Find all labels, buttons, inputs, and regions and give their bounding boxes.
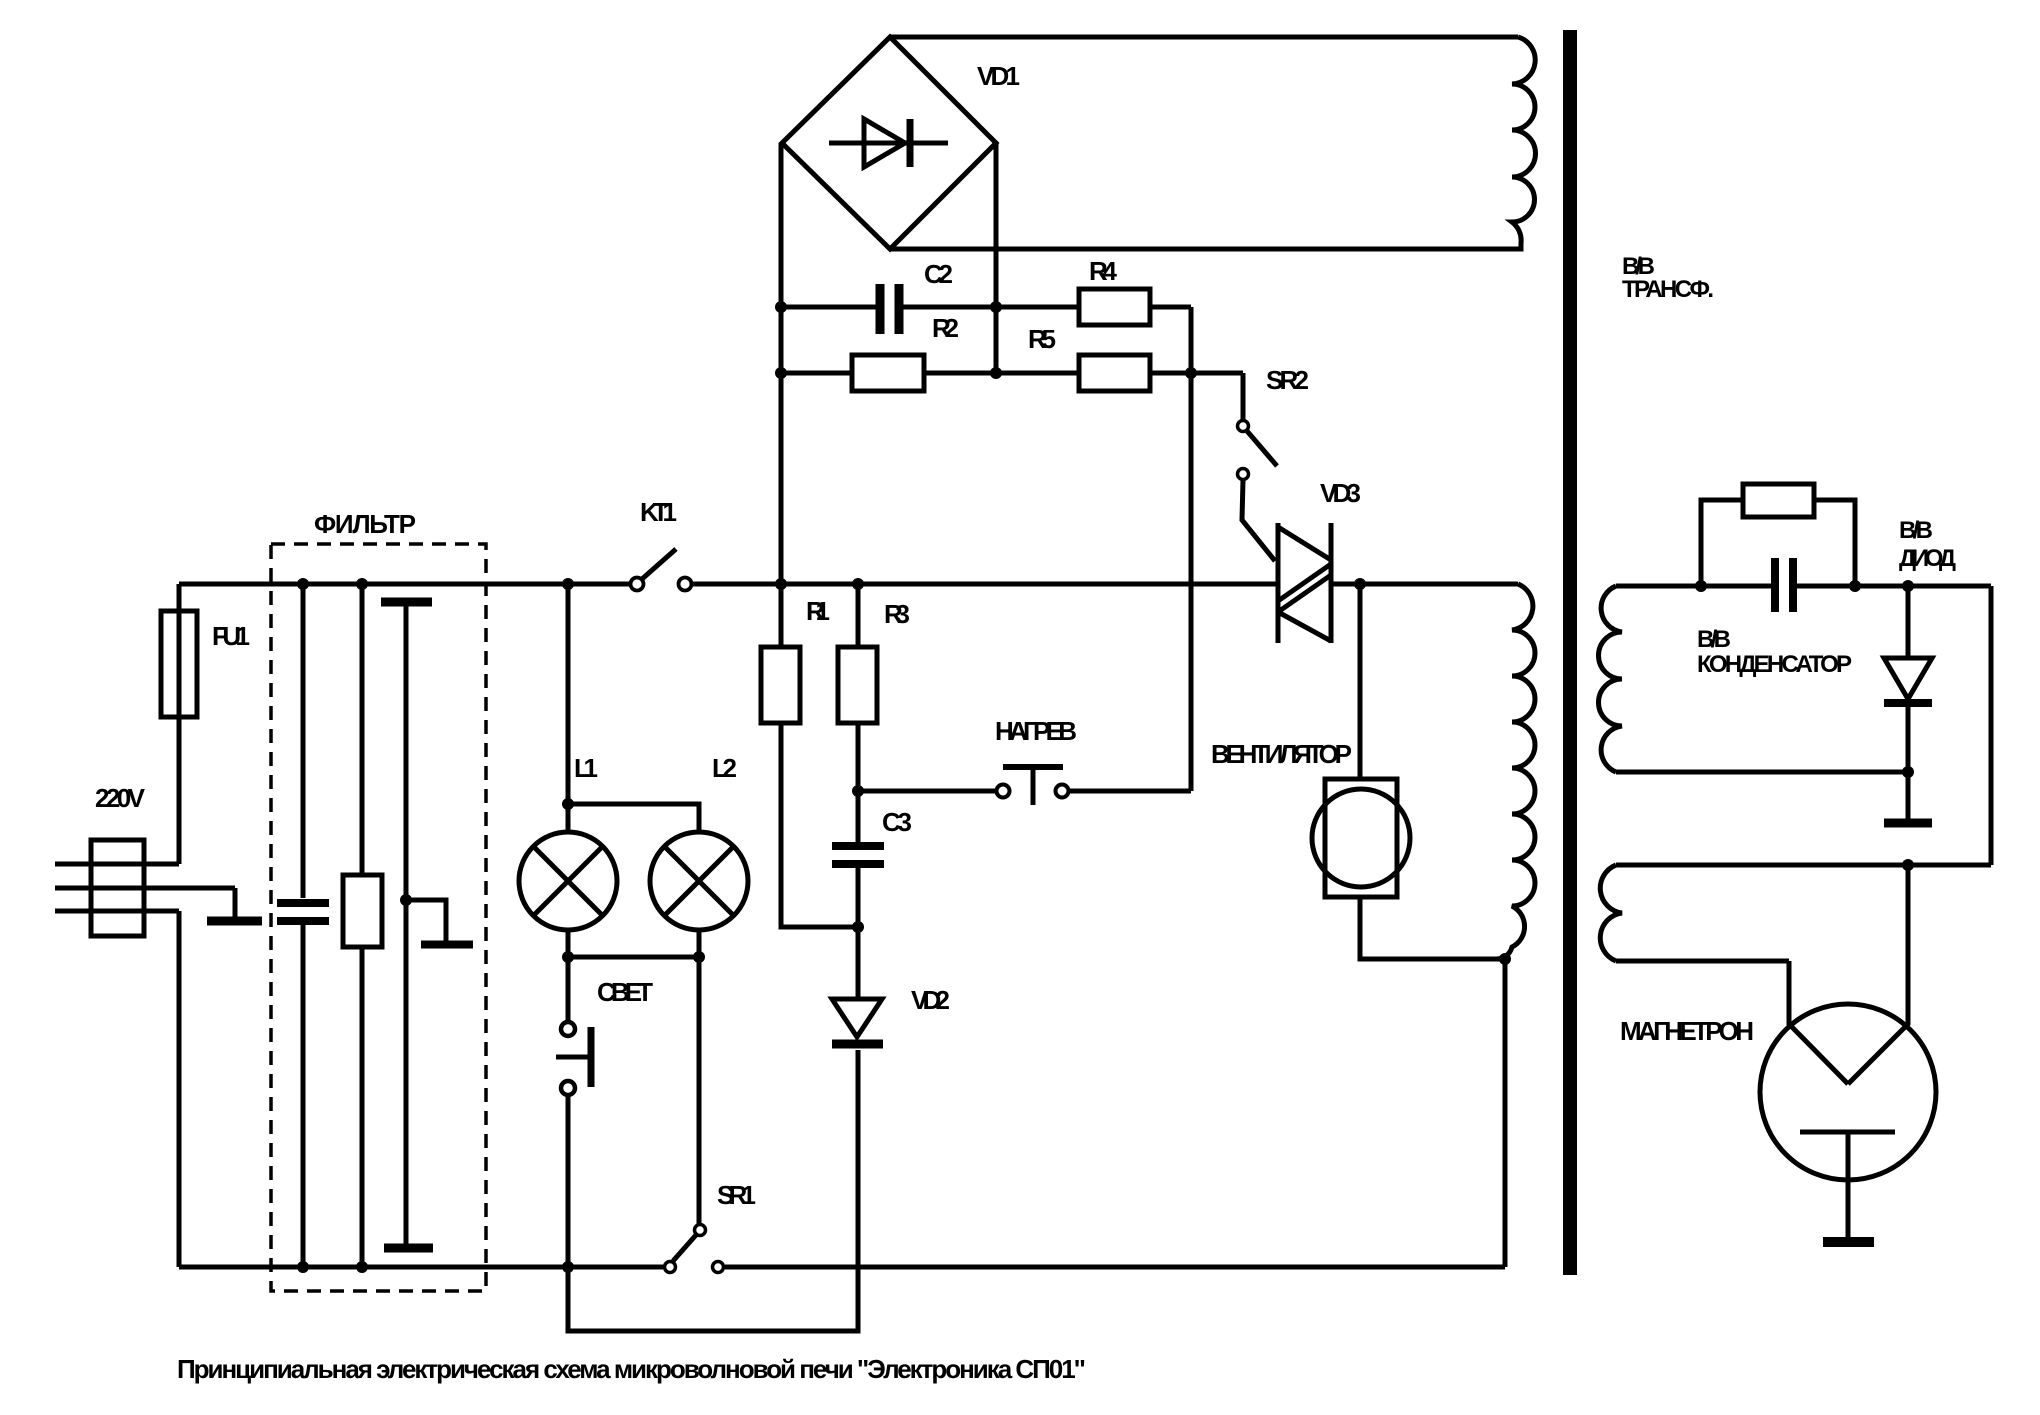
svg-text:R2: R2 bbox=[932, 313, 959, 343]
label В/В ДИОД bbox=[1899, 517, 1956, 572]
bottom rail left of SR1 bbox=[179, 1265, 663, 1270]
filter resistor bbox=[343, 584, 382, 1267]
svg-text:KT1: KT1 bbox=[640, 497, 677, 527]
bleeder resistor over HV capacitor bbox=[1701, 484, 1855, 586]
svg-text:R3: R3 bbox=[884, 599, 910, 629]
svg-text:Принципиальная электрическая с: Принципиальная электрическая схема микро… bbox=[177, 1354, 1086, 1384]
node R1 top on main wire bbox=[775, 578, 787, 590]
node filter resistor bottom on rail bbox=[356, 1261, 368, 1273]
transformer core bbox=[1563, 30, 1577, 1275]
svg-text:C3: C3 bbox=[882, 807, 912, 837]
wire L2 down to SR1 bbox=[697, 957, 702, 1224]
wire light button to bottom rail bbox=[566, 1096, 571, 1267]
HV bottom wire bbox=[1616, 770, 1908, 775]
svg-text:ДИОД: ДИОД bbox=[1899, 545, 1956, 572]
ground stub right of filter line bbox=[406, 900, 473, 945]
node primary bottom junction bbox=[1499, 953, 1511, 965]
lower primary winding of HV transformer bbox=[1496, 584, 1535, 959]
node R4/R5 junction bbox=[1185, 367, 1197, 379]
filter dashed box bbox=[271, 544, 486, 1291]
wire L1 bottom bbox=[566, 930, 571, 957]
node C1 bottom on rail bbox=[297, 1261, 309, 1273]
node HV diode bottom bbox=[1902, 766, 1914, 778]
wire L2 bottom bbox=[697, 930, 702, 957]
svg-text:L1: L1 bbox=[574, 753, 598, 783]
main wire right segment bbox=[691, 582, 1278, 587]
node bleeder right bbox=[1849, 580, 1861, 592]
resistor R4 bbox=[1079, 289, 1191, 373]
node lamps top split bbox=[562, 798, 574, 810]
wire winding bottom to bridge bottom vertex bbox=[890, 247, 1521, 252]
switch SR1 bbox=[665, 1225, 724, 1273]
node bleeder left bbox=[1695, 580, 1707, 592]
wire main down to lamps bbox=[566, 584, 571, 804]
node R1/C3 bottom junction bbox=[852, 921, 864, 933]
ground under magnetron bbox=[1823, 1237, 1874, 1247]
svg-text:ФИЛЬТР: ФИЛЬТР bbox=[314, 509, 416, 539]
upper primary winding of HV transformer bbox=[1512, 37, 1536, 249]
svg-text:SR1: SR1 bbox=[717, 1180, 756, 1210]
node C2 right bbox=[990, 301, 1002, 313]
wire bridge right vertex down to R2 line bbox=[994, 143, 999, 373]
ground bar at filter bottom bbox=[384, 1244, 433, 1253]
diode bridge VD1 bbox=[782, 37, 996, 249]
svg-text:СВЕТ: СВЕТ bbox=[597, 977, 653, 1007]
node on bottom rail under light button bbox=[562, 1261, 574, 1273]
node R2 left bbox=[775, 367, 787, 379]
wire winding bottom to junction bbox=[1460, 957, 1496, 962]
wire bridge top to upper primary winding bbox=[890, 35, 1518, 40]
svg-text:R1: R1 bbox=[806, 596, 830, 626]
svg-text:В/В: В/В bbox=[1697, 626, 1731, 653]
wire fan bottom to primary bottom bbox=[1360, 897, 1505, 959]
capacitor C2 bbox=[781, 284, 1079, 334]
HV top wire left part bbox=[1616, 584, 1771, 589]
fan motor ВЕНТИЛЯТОР bbox=[1312, 779, 1410, 897]
svg-text:FU1: FU1 bbox=[212, 621, 250, 651]
node triac fan junction bbox=[1354, 578, 1366, 590]
resistor R3 bbox=[838, 584, 877, 791]
node R3/C3/heat junction bbox=[852, 785, 864, 797]
svg-text:VD1: VD1 bbox=[977, 61, 1020, 91]
svg-text:МАГНЕТРОН: МАГНЕТРОН bbox=[1620, 1016, 1754, 1046]
svg-text:ТРАНСФ.: ТРАНСФ. bbox=[1622, 276, 1714, 303]
wire down to light button bbox=[566, 957, 571, 1021]
node filter resistor top on main wire bbox=[356, 578, 368, 590]
capacitor C3 bbox=[832, 791, 884, 927]
svg-text:C2: C2 bbox=[924, 259, 953, 289]
node filament top junction bbox=[1902, 859, 1914, 871]
main wire after triac bbox=[1331, 582, 1518, 587]
filter capacitor C1 bbox=[277, 584, 329, 1267]
mains plug connector bbox=[55, 840, 235, 936]
fuse FU1 bbox=[161, 584, 197, 864]
wire bridge left vertex down to main wire bbox=[779, 143, 784, 584]
triac VD3 bbox=[1278, 523, 1331, 643]
node C2 left bbox=[775, 301, 787, 313]
ground at plug middle pin bbox=[207, 888, 262, 921]
HV top wire right part bbox=[1797, 584, 1991, 589]
wire to L2 top bbox=[568, 804, 699, 832]
filament bottom wire bbox=[1616, 959, 1789, 964]
node filter ground line bbox=[400, 894, 412, 906]
svg-text:КОНДЕНСАТОР: КОНДЕНСАТОР bbox=[1697, 651, 1852, 678]
push button СВЕТ bbox=[556, 1022, 591, 1095]
svg-text:VD3: VD3 bbox=[1320, 478, 1361, 508]
svg-text:R4: R4 bbox=[1089, 256, 1118, 286]
filament winding bbox=[1600, 865, 1622, 961]
wire plug bottom pin down to bottom rail bbox=[177, 911, 182, 1267]
resistor R5 bbox=[1079, 355, 1243, 391]
label В/В КОНДЕНСАТОР bbox=[1697, 626, 1852, 678]
wire light button rail to VD2 bottom bbox=[568, 1050, 858, 1331]
wire joining lamp bottoms bbox=[568, 955, 699, 960]
svg-text:SR2: SR2 bbox=[1266, 365, 1309, 395]
filament top wire bbox=[1616, 863, 1991, 868]
push button НАГРЕВ bbox=[858, 767, 1191, 805]
lamp L1 bbox=[519, 804, 617, 930]
wire R4/R5 junction down to heat button bbox=[1189, 373, 1194, 791]
wire primary bottom junction down to rail bbox=[1503, 959, 1508, 1267]
node R3 top on main wire bbox=[852, 578, 864, 590]
svg-text:НАГРЕВ: НАГРЕВ bbox=[995, 716, 1077, 746]
node HV diode top bbox=[1902, 580, 1914, 592]
wire filter ground line down bbox=[404, 900, 409, 1244]
svg-text:В/В: В/В bbox=[1899, 517, 1933, 544]
switch SR2 bbox=[1238, 373, 1278, 561]
wire HV top right corner down bbox=[1989, 586, 1994, 865]
resistor R2 bbox=[781, 355, 1079, 391]
node under L1 bbox=[562, 951, 574, 963]
HV capacitor В/В КОНДЕНСАТОР bbox=[1775, 558, 1793, 612]
svg-text:220V: 220V bbox=[95, 783, 146, 813]
switch KT1 bbox=[631, 549, 692, 591]
main wire left segment bbox=[179, 582, 631, 587]
svg-text:VD2: VD2 bbox=[911, 985, 950, 1015]
node C1 top on main wire bbox=[297, 578, 309, 590]
wire junction down to fan bbox=[1358, 584, 1363, 779]
svg-text:L2: L2 bbox=[712, 753, 737, 783]
ground under HV diode bbox=[1884, 772, 1932, 823]
node lamps branch on main wire bbox=[562, 578, 574, 590]
svg-text:ВЕНТИЛЯТОР: ВЕНТИЛЯТОР bbox=[1211, 739, 1352, 769]
resistor R1 bbox=[761, 584, 858, 927]
node R2 right bbox=[990, 367, 1002, 379]
svg-text:R5: R5 bbox=[1028, 324, 1056, 354]
diode VD2 bbox=[832, 927, 883, 1044]
node under L2 bbox=[693, 951, 705, 963]
inverted ground bar at filter top bbox=[381, 602, 432, 900]
lamp L2 bbox=[650, 832, 748, 930]
bottom rail right of SR1 bbox=[725, 1265, 1505, 1270]
HV diode bbox=[1884, 586, 1932, 772]
label В/В ТРАНСФ. bbox=[1622, 253, 1714, 303]
HV secondary winding bbox=[1598, 586, 1622, 772]
magnetron bbox=[1760, 865, 1936, 1237]
